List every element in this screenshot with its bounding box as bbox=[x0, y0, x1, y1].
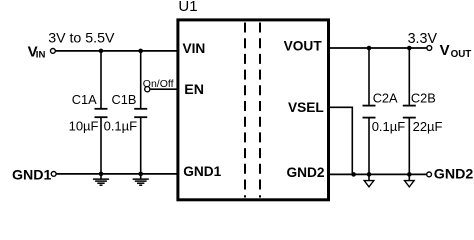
value 0.1uF left bbox=[104, 118, 138, 133]
svg-text:C2B: C2B bbox=[411, 91, 436, 106]
svg-text:VOUT: VOUT bbox=[284, 38, 323, 53]
node VOUT terminal label bbox=[440, 42, 472, 60]
pin VSEL label bbox=[288, 100, 324, 115]
svg-text:GND2: GND2 bbox=[434, 167, 474, 183]
node junction GND C1B bbox=[138, 172, 143, 177]
svg-text:22µF: 22µF bbox=[413, 119, 443, 134]
svg-text:10µF: 10µF bbox=[69, 118, 99, 133]
pin GND1 label bbox=[183, 164, 221, 179]
svg-text:EN: EN bbox=[184, 82, 204, 98]
pin VIN label bbox=[183, 41, 206, 56]
ground earth symbol left2 bbox=[133, 174, 149, 185]
terminal circle GND2 bbox=[427, 172, 432, 177]
label C2A bbox=[373, 91, 398, 106]
node junction GND C2A bbox=[367, 172, 372, 177]
terminal circle VOUT bbox=[427, 46, 432, 51]
node GND2 terminal label bbox=[434, 167, 474, 183]
ground triangle symbol right2 bbox=[405, 174, 415, 187]
svg-text:3.3V: 3.3V bbox=[408, 31, 438, 47]
svg-text:IN: IN bbox=[36, 50, 46, 61]
wire VSEL horizontal bbox=[329, 106, 353, 108]
label C1A bbox=[72, 92, 97, 107]
terminal circle GND1 bbox=[51, 172, 56, 177]
svg-text:GND2: GND2 bbox=[286, 165, 324, 180]
label 3.3V bbox=[408, 31, 438, 47]
svg-text:C2A: C2A bbox=[373, 91, 398, 106]
wire C2A lower bbox=[368, 118, 370, 174]
node junction C1B bbox=[138, 49, 143, 54]
svg-text:C1A: C1A bbox=[72, 92, 97, 107]
node VIN terminal label bbox=[28, 43, 46, 60]
node junction GND C1A bbox=[99, 172, 104, 177]
svg-text:C1B: C1B bbox=[112, 92, 137, 107]
wire EN bbox=[150, 88, 178, 90]
svg-text:3V to 5.5V: 3V to 5.5V bbox=[48, 31, 115, 47]
node GND1 terminal label bbox=[12, 168, 52, 184]
svg-text:GND1: GND1 bbox=[183, 164, 221, 179]
capacitor C1A bbox=[95, 109, 108, 117]
svg-text:VIN: VIN bbox=[183, 41, 206, 56]
wire C1B lower bbox=[140, 118, 142, 174]
value 22uF bbox=[413, 119, 443, 134]
wire VOUT output bbox=[329, 47, 427, 49]
label C1B bbox=[112, 92, 137, 107]
node junction GND C2B bbox=[407, 172, 412, 177]
wire C1A upper bbox=[100, 51, 102, 108]
wire C1B upper bbox=[140, 51, 142, 108]
label On/Off bbox=[143, 78, 174, 90]
node junction VSEL-GND2 bbox=[351, 172, 356, 177]
svg-text:0.1µF: 0.1µF bbox=[104, 118, 138, 133]
pin GND2 label bbox=[286, 165, 324, 180]
U1 reference designator bbox=[178, 0, 197, 15]
ground earth symbol left1 bbox=[93, 174, 109, 185]
capacitor C2A bbox=[363, 106, 376, 118]
svg-text:VSEL: VSEL bbox=[288, 100, 324, 115]
label 3V to 5.5V bbox=[48, 31, 115, 47]
wire C2B lower bbox=[408, 118, 410, 174]
label C2B bbox=[411, 91, 436, 106]
wire C2A upper bbox=[368, 48, 370, 105]
node junction C1A bbox=[99, 49, 104, 54]
svg-text:U1: U1 bbox=[178, 0, 197, 15]
pin VOUT label bbox=[284, 38, 323, 53]
ground triangle symbol right1 bbox=[364, 174, 374, 187]
wire VIN input bbox=[56, 50, 178, 52]
node junction C2A bbox=[367, 46, 372, 51]
pin EN label bbox=[184, 82, 204, 98]
node junction C2B bbox=[407, 46, 412, 51]
svg-text:0.1µF: 0.1µF bbox=[372, 119, 406, 134]
capacitor C1B bbox=[134, 109, 147, 117]
wire C1A lower bbox=[100, 118, 102, 174]
wire GND2 bbox=[329, 173, 427, 175]
capacitor C2B bbox=[403, 106, 416, 118]
svg-text:GND1: GND1 bbox=[12, 168, 52, 184]
op-amp U1 bbox=[178, 20, 329, 200]
svg-text:OUT: OUT bbox=[451, 49, 472, 60]
wire GND1 bbox=[56, 173, 178, 175]
dashed internal divider left bbox=[244, 23, 246, 198]
wire VSEL vertical bbox=[351, 107, 353, 175]
dashed internal divider right bbox=[259, 23, 261, 198]
terminal circle EN bbox=[145, 87, 150, 92]
terminal circle VIN bbox=[51, 49, 56, 54]
value 10uF bbox=[69, 118, 99, 133]
value 0.1uF right bbox=[372, 119, 406, 134]
wire C2B upper bbox=[408, 48, 410, 105]
svg-text:V: V bbox=[440, 42, 450, 59]
